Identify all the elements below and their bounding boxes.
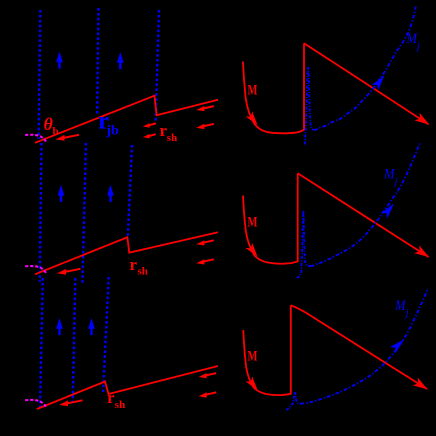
up arrow 2 <box>117 52 124 69</box>
jet boundary with shock step <box>35 232 218 274</box>
up arrow 2 <box>88 318 95 335</box>
arrowhead on M falling branch <box>246 111 261 127</box>
streamline L3 <box>156 10 159 122</box>
svg-text:M: M <box>248 215 258 231</box>
flow arrow a1 <box>56 135 80 141</box>
arrowhead end <box>413 378 431 394</box>
svg-text:M: M <box>248 83 258 99</box>
svg-text:sh: sh <box>115 399 125 411</box>
streamline L2 <box>97 8 98 115</box>
flow arrow a5 <box>196 259 214 264</box>
flow arrow a5 <box>199 392 217 397</box>
flow arrow a4 <box>196 106 214 111</box>
flow arrow a1 <box>59 400 83 406</box>
M_j spike + curve <box>305 67 314 145</box>
arrowhead end of M line <box>414 113 432 129</box>
M curve <box>243 173 298 263</box>
svg-text:sh: sh <box>167 132 177 144</box>
streamline L3 <box>128 145 132 239</box>
M_j spike + curve <box>297 211 311 279</box>
M curve <box>243 305 290 395</box>
magenta angle arc <box>25 266 46 274</box>
M post-shock declining line <box>304 43 429 124</box>
arrowhead on M_j curve <box>381 201 398 219</box>
M_j curve main <box>301 288 429 404</box>
flow arrow a4 <box>199 373 217 378</box>
up arrow 1 <box>56 318 63 335</box>
streamline L2 <box>73 278 76 402</box>
M_j spike + curve <box>287 392 301 410</box>
up arrow 1 <box>56 52 63 69</box>
streamline L1 <box>40 143 42 282</box>
svg-text:b: b <box>53 126 59 138</box>
M post-shock line <box>291 305 427 389</box>
svg-text:r: r <box>107 388 115 407</box>
up arrow 2 <box>107 185 114 202</box>
svg-text:sh: sh <box>138 266 148 278</box>
M post-shock line <box>298 173 429 257</box>
jet boundary with shock step <box>37 366 218 409</box>
arrowhead on falling branch <box>246 243 261 259</box>
arrowhead end <box>414 245 432 261</box>
arrowhead on falling branch <box>246 376 261 392</box>
M_j curve main <box>314 7 416 130</box>
M curve (pre-shock Mach) <box>243 43 304 133</box>
magenta angle arc <box>25 135 46 143</box>
arrowhead on M_j curve <box>372 72 388 90</box>
M_j curve main <box>311 142 421 266</box>
streamline L1 <box>39 10 41 139</box>
flow arrow a1 <box>57 269 81 275</box>
svg-text:M: M <box>248 348 258 364</box>
magenta angle arc <box>25 400 46 408</box>
svg-text:jb: jb <box>105 123 119 138</box>
streamline L3 <box>103 277 109 394</box>
flow arrow a3 <box>143 134 156 139</box>
flow arrow a2 <box>143 123 156 128</box>
streamline L2 <box>82 143 86 284</box>
jet boundary with shock step <box>35 96 218 143</box>
arrowhead on M_j curve <box>390 336 407 353</box>
flow arrow a5 <box>196 124 214 129</box>
up arrow 1 <box>58 185 65 202</box>
svg-text:r: r <box>130 255 138 274</box>
flow arrow a4 <box>196 240 214 245</box>
streamline L1 <box>40 278 43 407</box>
